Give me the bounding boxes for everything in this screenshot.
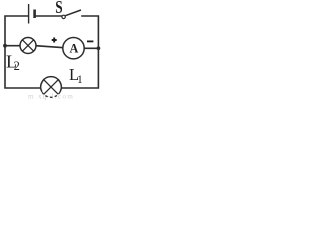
svg-text:S: S bbox=[55, 0, 62, 17]
svg-text:2: 2 bbox=[14, 59, 20, 73]
svg-text:m xq-l.com: m xq-l.com bbox=[28, 93, 74, 101]
svg-text:1: 1 bbox=[77, 74, 83, 86]
svg-text:A: A bbox=[69, 42, 78, 56]
